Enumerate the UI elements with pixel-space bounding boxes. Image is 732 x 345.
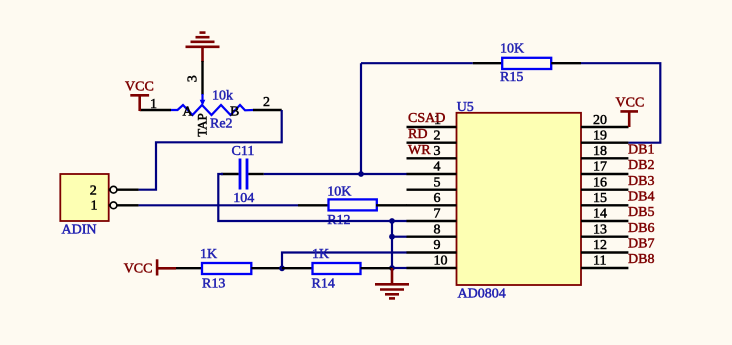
U5 pin 5 xyxy=(407,188,457,190)
connector ADIN xyxy=(60,174,138,221)
IC U5 AD0804 xyxy=(457,113,582,285)
svg-text:1: 1 xyxy=(91,199,98,214)
svg-text:7: 7 xyxy=(434,207,441,222)
svg-text:14: 14 xyxy=(593,207,607,222)
U5 pin 3 xyxy=(407,157,457,159)
svg-text:DB4: DB4 xyxy=(628,190,654,205)
svg-text:CSAD: CSAD xyxy=(408,111,445,126)
wire divider tap to U5 pin 9 xyxy=(282,253,407,269)
svg-text:AD0804: AD0804 xyxy=(458,287,506,302)
junction Vin+ node xyxy=(358,171,364,177)
wire R15 to U5 pin 19 xyxy=(581,63,660,143)
svg-text:U5: U5 xyxy=(457,100,474,115)
wire Vin+ node up to R15 xyxy=(360,63,362,174)
svg-text:1: 1 xyxy=(150,97,157,112)
U5 pin 9 xyxy=(407,251,457,253)
U5 pin 6 xyxy=(407,204,457,206)
wire ADIN pin1 to R12 xyxy=(139,204,298,206)
svg-text:10K: 10K xyxy=(327,184,351,199)
U5 pin 10 xyxy=(407,267,457,269)
svg-text:2: 2 xyxy=(263,95,270,110)
ground rail (pins 7,8,10) xyxy=(391,221,393,268)
svg-text:9: 9 xyxy=(434,238,441,253)
U5 pin 1 xyxy=(407,126,457,128)
wire rail to U5 pin 10 xyxy=(392,267,407,269)
junction rail / pin 8 xyxy=(389,234,395,240)
svg-text:R14: R14 xyxy=(312,277,335,292)
svg-text:10k: 10k xyxy=(212,89,233,104)
svg-text:DB8: DB8 xyxy=(628,252,654,267)
svg-text:104: 104 xyxy=(233,191,254,206)
svg-text:2: 2 xyxy=(90,183,97,198)
svg-text:10: 10 xyxy=(434,254,448,269)
resistor R15 xyxy=(361,58,581,69)
junction rail / pin 10 xyxy=(389,265,395,271)
svg-text:11: 11 xyxy=(593,254,606,269)
U5 pin 12 xyxy=(581,251,628,253)
svg-text:DB7: DB7 xyxy=(628,237,654,252)
svg-text:DB5: DB5 xyxy=(628,205,654,220)
svg-text:C11: C11 xyxy=(232,144,255,159)
power VCC (U5 pin 20) xyxy=(616,96,645,128)
U5 pin 19 xyxy=(581,141,628,143)
wire rail to pin 8 xyxy=(392,236,407,238)
svg-text:WR: WR xyxy=(408,143,431,158)
svg-text:3: 3 xyxy=(186,75,201,82)
svg-text:VCC: VCC xyxy=(616,96,645,111)
svg-text:13: 13 xyxy=(593,223,607,238)
U5 pin 15 xyxy=(581,204,628,206)
U5 pin 13 xyxy=(581,235,628,237)
svg-text:Re2: Re2 xyxy=(210,117,233,132)
U5 pin 17 xyxy=(581,173,628,175)
svg-text:1K: 1K xyxy=(200,247,217,262)
wire C11 left to AGND net xyxy=(218,174,407,221)
ground (top, above Re2) xyxy=(186,33,220,62)
svg-text:2: 2 xyxy=(434,129,441,144)
U5 pin 11 xyxy=(581,267,628,269)
U5 pin 16 xyxy=(581,188,628,190)
wire Re2 pin2 to ADIN pin 2 xyxy=(139,110,282,190)
resistor R14 xyxy=(282,263,392,274)
svg-text:12: 12 xyxy=(593,238,607,253)
svg-text:DB2: DB2 xyxy=(628,158,654,173)
svg-text:ADIN: ADIN xyxy=(62,223,97,238)
svg-text:R15: R15 xyxy=(500,70,523,85)
svg-text:5: 5 xyxy=(434,176,441,191)
wire C11 right to U5 pin 4 xyxy=(264,173,407,175)
svg-text:1K: 1K xyxy=(312,247,329,262)
U5 pin 4 xyxy=(407,173,457,175)
svg-text:VCC: VCC xyxy=(124,262,153,277)
svg-text:19: 19 xyxy=(593,129,607,144)
junction divider tap xyxy=(279,265,285,271)
svg-text:20: 20 xyxy=(593,113,607,128)
svg-text:DB1: DB1 xyxy=(628,143,654,158)
svg-text:17: 17 xyxy=(593,160,607,175)
svg-text:TAP: TAP xyxy=(195,113,210,137)
ground (bottom) xyxy=(375,268,409,298)
resistor R12 xyxy=(298,199,407,210)
U5 pin 7 xyxy=(407,220,457,222)
power VCC (R13) xyxy=(124,259,176,276)
svg-text:16: 16 xyxy=(593,176,607,191)
svg-text:18: 18 xyxy=(593,144,607,159)
junction rail / pin 7 xyxy=(389,218,395,224)
potentiometer Re2 xyxy=(140,61,282,115)
svg-text:3: 3 xyxy=(434,144,441,159)
svg-text:15: 15 xyxy=(593,191,607,206)
power VCC (Re2 pin 1) xyxy=(125,80,154,112)
capacitor C11 xyxy=(221,159,264,190)
U5 pin 8 xyxy=(407,235,457,237)
U5 pin 20 xyxy=(581,126,629,128)
U5 pin 18 xyxy=(581,157,628,159)
svg-text:8: 8 xyxy=(434,223,441,238)
svg-text:R13: R13 xyxy=(202,277,225,292)
svg-text:DB3: DB3 xyxy=(628,174,654,189)
svg-text:DB6: DB6 xyxy=(628,221,654,236)
resistor R13 xyxy=(176,263,282,274)
svg-text:VCC: VCC xyxy=(125,80,154,95)
svg-text:10K: 10K xyxy=(500,42,524,57)
svg-text:6: 6 xyxy=(434,191,441,206)
svg-text:A: A xyxy=(183,105,194,120)
U5 pin 14 xyxy=(581,220,628,222)
U5 pin 2 xyxy=(407,141,457,143)
svg-text:RD: RD xyxy=(408,127,427,142)
svg-text:4: 4 xyxy=(434,160,441,175)
